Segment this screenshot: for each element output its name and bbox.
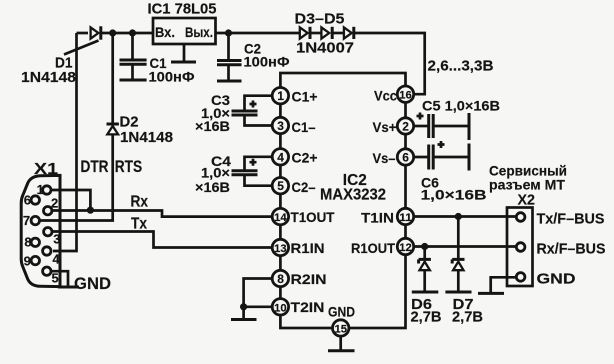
- svg-text:C2–: C2–: [292, 179, 316, 195]
- pin 16 Vcc: [397, 86, 413, 102]
- node junction R2IN/T2IN: [240, 303, 247, 310]
- connector X1 DB9 outline: [21, 175, 60, 286]
- wire D4-D5: [332, 32, 344, 35]
- svg-text:Vs+: Vs+: [373, 119, 397, 135]
- pin 11 T1IN: [397, 208, 413, 224]
- ground R2IN/T2IN: [231, 318, 257, 321]
- svg-text:2: 2: [402, 120, 409, 134]
- diode D5: [344, 27, 354, 39]
- node junction Rx: [87, 207, 94, 214]
- svg-text:7: 7: [23, 213, 30, 228]
- pin 5 C2-: [272, 178, 288, 194]
- svg-text:Вых.: Вых.: [185, 24, 213, 40]
- svg-text:6: 6: [402, 151, 409, 165]
- svg-text:GND: GND: [74, 275, 111, 293]
- zener D6: [419, 247, 431, 292]
- svg-text:1N4148: 1N4148: [21, 69, 76, 86]
- svg-text:1,0×16В: 1,0×16В: [421, 187, 487, 203]
- X1 pin 9: [31, 256, 39, 264]
- ground IC1: [171, 61, 196, 64]
- svg-text:T1IN: T1IN: [361, 209, 394, 225]
- svg-text:C5 1,0×16В: C5 1,0×16В: [422, 98, 500, 114]
- svg-text:RTS: RTS: [115, 158, 143, 176]
- svg-text:14: 14: [274, 212, 287, 224]
- ground C6: [468, 144, 471, 171]
- svg-text:Tx: Tx: [131, 215, 147, 232]
- capacitor C2: [217, 33, 242, 81]
- svg-text:2,7В: 2,7В: [411, 309, 442, 326]
- pin 1 C1+: [272, 88, 288, 104]
- node junction D6: [421, 243, 428, 250]
- svg-text:MAX3232: MAX3232: [320, 187, 386, 204]
- pin 10 T2IN: [272, 299, 288, 315]
- X2 pin 1: [516, 213, 525, 222]
- pin 2 Vs+: [397, 118, 413, 134]
- svg-text:1: 1: [277, 89, 284, 103]
- svg-text:2,6...3,3В: 2,6...3,3В: [428, 58, 494, 75]
- node junction D7: [455, 213, 462, 220]
- svg-text:×16В: ×16В: [195, 179, 230, 195]
- wire X1 pin5 to ground: [51, 271, 68, 286]
- svg-text:GND: GND: [328, 304, 355, 320]
- diode D3: [300, 27, 310, 39]
- svg-text:100нФ: 100нФ: [244, 54, 290, 70]
- svg-text:R2IN: R2IN: [291, 271, 327, 287]
- svg-text:Rx: Rx: [131, 194, 149, 211]
- svg-text:2: 2: [51, 196, 58, 211]
- svg-text:3: 3: [277, 119, 284, 133]
- X1 pin 6: [31, 196, 39, 204]
- pin 13 R1IN: [272, 239, 288, 255]
- node junction D2 rail: [109, 29, 116, 36]
- svg-text:15: 15: [335, 324, 348, 336]
- svg-text:Vcc: Vcc: [374, 87, 397, 103]
- svg-text:Rx/F–BUS: Rx/F–BUS: [537, 241, 606, 258]
- svg-text:16: 16: [399, 90, 412, 102]
- wire IC1 output rail: [216, 32, 300, 35]
- svg-text:4: 4: [277, 150, 284, 164]
- svg-text:D3–D5: D3–D5: [295, 11, 345, 28]
- svg-text:12: 12: [399, 242, 412, 254]
- svg-text:1N4007: 1N4007: [296, 40, 354, 57]
- regulator IC1 78L05 box: [153, 18, 216, 44]
- ground X1: [58, 286, 79, 289]
- capacitor C1: [120, 33, 147, 80]
- ground D6: [412, 291, 439, 294]
- svg-text:X1: X1: [34, 161, 58, 178]
- svg-text:3: 3: [53, 231, 60, 246]
- svg-text:100нФ: 100нФ: [149, 69, 195, 85]
- svg-text:D2: D2: [120, 114, 139, 131]
- capacitor C6: [414, 141, 469, 170]
- X1 pin 2: [44, 207, 52, 215]
- pin 8 R2IN: [272, 270, 288, 286]
- X2 pin 3: [516, 273, 525, 282]
- svg-text:T2IN: T2IN: [291, 299, 325, 315]
- capacitor C5: [414, 113, 469, 139]
- wire RTS vertical lower: [40, 134, 113, 221]
- svg-text:5: 5: [52, 271, 59, 286]
- svg-text:1: 1: [37, 182, 44, 197]
- svg-text:C1–: C1–: [292, 119, 316, 135]
- svg-text:R1IN: R1IN: [291, 240, 325, 256]
- svg-text:GND: GND: [537, 271, 576, 288]
- svg-text:C2+: C2+: [292, 150, 318, 166]
- wire Tx from pin3 to R1IN: [52, 232, 272, 248]
- X1 pin 8: [31, 238, 39, 246]
- svg-text:10: 10: [274, 302, 287, 314]
- IC U2: IC2 MAX3232 box outline: [280, 73, 405, 328]
- svg-text:2,7В: 2,7В: [452, 309, 483, 326]
- wire top rail left segment: [77, 32, 89, 35]
- wire RTS vertical upper: [111, 33, 114, 123]
- svg-text:13: 13: [274, 243, 287, 255]
- X1 pin 4: [43, 247, 51, 255]
- capacitor C3: [232, 96, 273, 126]
- ground X2: [478, 292, 504, 295]
- diode D4: [321, 27, 332, 39]
- svg-text:разъем МТ: разъем МТ: [489, 177, 565, 193]
- D1 leader line: [64, 41, 99, 55]
- svg-text:11: 11: [399, 212, 412, 224]
- capacitor C4: [232, 157, 273, 186]
- ground C2: [217, 80, 242, 83]
- svg-text:R1OUT: R1OUT: [351, 240, 395, 256]
- svg-text:DTR: DTR: [81, 158, 109, 176]
- pin 4 C2+: [272, 149, 288, 165]
- svg-text:×16В: ×16В: [195, 118, 230, 134]
- pin 15 GND: [333, 320, 349, 336]
- svg-text:8: 8: [277, 272, 284, 286]
- pin 14 T1OUT: [272, 208, 288, 224]
- pin 3 C1-: [272, 117, 288, 133]
- ground C1: [120, 79, 147, 82]
- wire R1OUT to X2: [414, 245, 517, 248]
- diode D2: [107, 124, 119, 134]
- wire IC1 ground lead: [183, 44, 186, 62]
- svg-text:T1OUT: T1OUT: [291, 209, 335, 225]
- node junction C1 rail: [129, 29, 136, 36]
- zener D7: [452, 217, 464, 292]
- svg-text:Vs–: Vs–: [373, 150, 396, 166]
- X2 pin 2: [516, 243, 525, 252]
- svg-text:IC1 78L05: IC1 78L05: [148, 1, 217, 18]
- pin 12 R1OUT: [397, 238, 413, 254]
- wire X2 gnd: [491, 277, 517, 293]
- svg-text:1N4148: 1N4148: [120, 129, 173, 146]
- wire X1 pin1 branch: [51, 190, 90, 210]
- X1 pin 5: [43, 267, 51, 275]
- svg-text:Вх.: Вх.: [155, 24, 175, 40]
- ground C5: [468, 113, 471, 140]
- ground D7: [445, 291, 471, 294]
- wire D5 to Vcc corner: [354, 33, 425, 94]
- svg-text:8: 8: [24, 234, 31, 249]
- X1 pin 3: [44, 228, 52, 236]
- pin 6 Vs-: [397, 149, 413, 165]
- X1 pin 7: [31, 216, 39, 224]
- svg-text:9: 9: [24, 253, 31, 268]
- wire T1IN to X2: [414, 215, 517, 218]
- wire R2IN T2IN tie: [244, 279, 273, 319]
- svg-text:4: 4: [52, 252, 60, 267]
- svg-text:6: 6: [24, 193, 31, 208]
- ground pin15: [328, 349, 355, 352]
- wire D3-D4: [310, 32, 321, 35]
- wire pin15 ground lead: [339, 336, 342, 350]
- node junction C2 rail: [225, 29, 232, 36]
- wire D1 cathode to IC1 input: [101, 32, 154, 35]
- wire DTR vertical: [53, 33, 77, 251]
- svg-text:Tx/F–BUS: Tx/F–BUS: [537, 211, 605, 228]
- wire Rx from pin2 to T1OUT: [52, 211, 272, 217]
- X1 pin 1: [43, 186, 51, 194]
- svg-text:5: 5: [277, 179, 284, 193]
- svg-text:C1+: C1+: [292, 89, 318, 105]
- svg-text:X2: X2: [518, 192, 536, 209]
- diode D1: [91, 26, 101, 39]
- connector X2 box: [507, 208, 533, 287]
